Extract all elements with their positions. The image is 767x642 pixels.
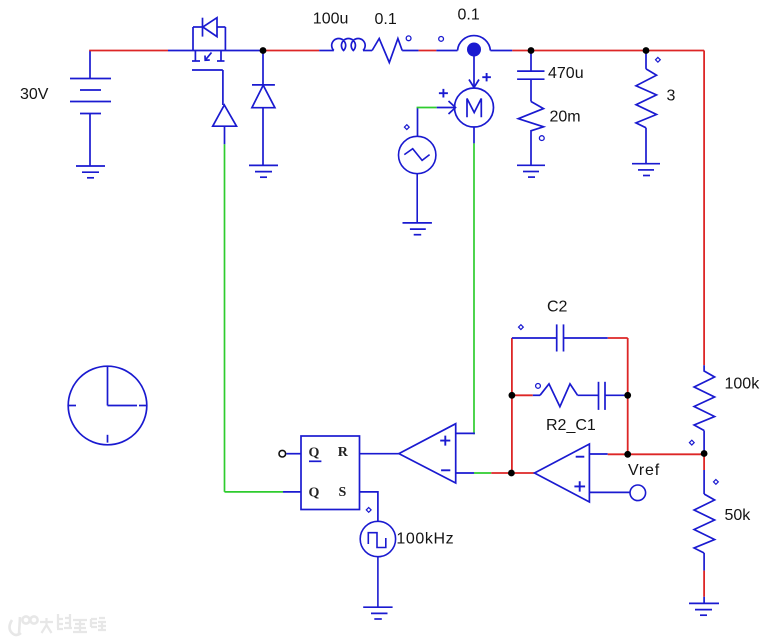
wire red switch node to inductor: [263, 50, 319, 52]
wire red ea output stub: [511, 472, 534, 474]
minus sign comparator: [441, 469, 450, 471]
marker circle RL: [406, 36, 411, 41]
svg-text:0.1: 0.1: [375, 11, 397, 28]
wire summer output blue stub: [473, 127, 475, 143]
plus sign left input summer: [439, 89, 448, 98]
wire red battery to mosfet: [89, 50, 168, 52]
svg-text:100u: 100u: [313, 11, 349, 28]
node ea minus feedback: [624, 451, 631, 458]
marker diamond source: [404, 125, 409, 130]
marker diamond 50k: [714, 480, 719, 485]
marker circle sensor: [439, 37, 444, 42]
svg-text:S: S: [339, 485, 347, 500]
wire green comp minus to ea out: [474, 472, 491, 474]
resistor 50k: [694, 470, 715, 571]
svg-text:Q: Q: [309, 486, 320, 501]
ground 100kHz: [363, 607, 392, 619]
svg-text:Vref: Vref: [628, 462, 660, 479]
Vref terminal: [630, 485, 646, 501]
node feedback left mid: [509, 392, 516, 399]
battery V1: [70, 51, 111, 167]
marker diamond clock: [366, 508, 371, 513]
resistor load 3: [636, 51, 657, 164]
resistor 100k: [694, 365, 715, 453]
wire sensor dot down to summer: [469, 56, 479, 88]
svg-text:100k: 100k: [725, 376, 761, 393]
wire red right vertical: [703, 51, 705, 366]
node switch junction: [260, 47, 267, 54]
plus sign top input summer: [482, 73, 491, 81]
gate driver triangle: [213, 105, 237, 144]
svg-text:R: R: [338, 445, 349, 460]
wire red to sensor: [419, 50, 437, 52]
watermark logo: [10, 616, 38, 635]
svg-text:50k: 50k: [725, 507, 752, 524]
diode D1 freewheeling: [252, 51, 275, 166]
terminal circle qbar: [279, 450, 286, 457]
wire green to flipflop Q: [225, 491, 284, 493]
wire red feedback right vertical: [627, 338, 629, 454]
triangle wave source: [399, 136, 436, 223]
wire after RL: [402, 50, 418, 52]
ground diode D1: [249, 165, 278, 177]
summer block M: [455, 88, 494, 127]
ground 50k: [689, 603, 719, 615]
wire blue 50k ground lead: [703, 597, 705, 604]
wire source to summer blue vertical: [417, 108, 419, 137]
capacitor C1 feedback: [599, 382, 628, 410]
wire red c2 right: [608, 337, 628, 339]
ground triangle source: [403, 223, 432, 235]
svg-text:3: 3: [667, 88, 676, 105]
wire blue q pin stub: [283, 491, 301, 493]
resistor 20m: [518, 102, 543, 166]
plus sign comparator: [440, 436, 450, 446]
flip flop SR: [301, 436, 360, 510]
resistor R2 feedback: [533, 384, 599, 407]
marker diamond R3: [656, 57, 661, 62]
svg-text:30V: 30V: [20, 86, 49, 103]
MOSFET Q1 with body diode: [192, 18, 225, 105]
wire qbar to terminal: [286, 453, 301, 455]
sensor dot: [467, 43, 481, 57]
clock symbol: [68, 366, 147, 445]
wire red sensor to cap node: [512, 50, 531, 52]
comparator: [399, 424, 475, 483]
svg-text:20m: 20m: [550, 109, 581, 126]
marker circle 20m: [539, 136, 544, 141]
square wave source 100kHz: [360, 521, 395, 607]
marker circle r2: [536, 384, 541, 389]
ground 20m: [517, 165, 545, 177]
wire S to clock source: [360, 492, 378, 521]
svg-text:C2: C2: [547, 299, 568, 316]
node divider tap: [701, 450, 708, 457]
capacitor C2 feedback top: [512, 324, 608, 351]
wire red tap down: [703, 454, 705, 471]
node cap junction: [528, 47, 535, 54]
resistor RL 0.1: [372, 39, 402, 63]
watermark text: [40, 614, 106, 633]
wire blue rail through mosfet: [168, 50, 263, 52]
capacitor C 470u: [517, 51, 544, 102]
wire red to ea output node: [491, 472, 511, 474]
wire green summer left input: [417, 107, 437, 109]
wire red r2c1 left: [512, 394, 533, 396]
wire green summer output to comparator: [473, 143, 475, 434]
marker diamond 100k: [689, 440, 694, 445]
minus sign ea: [576, 456, 585, 458]
svg-text:R2_C1: R2_C1: [546, 417, 596, 434]
marker diamond c2: [519, 325, 524, 330]
ground battery: [76, 166, 105, 178]
wire R to comparator: [360, 453, 399, 455]
node ea output: [508, 470, 515, 477]
inductor L1: [319, 38, 372, 50]
wire red load node to corner: [646, 50, 704, 52]
svg-text:Q: Q: [309, 446, 320, 461]
wire red cap node to load node: [531, 50, 646, 52]
wire red feedback left vertical: [511, 338, 513, 473]
svg-text:100kHz: 100kHz: [396, 531, 454, 548]
svg-text:470u: 470u: [548, 65, 584, 82]
node load junction: [643, 47, 650, 54]
ground R3: [632, 164, 660, 176]
error amplifier: [535, 444, 631, 502]
wire red ea minus to tap: [608, 453, 704, 455]
wire green gate down: [224, 144, 226, 492]
svg-text:0.1: 0.1: [458, 7, 480, 24]
current sensor 0.1: [458, 36, 513, 51]
wire red 50k to ground: [703, 571, 705, 597]
plus sign ea: [574, 481, 585, 491]
node feedback right mid: [624, 392, 631, 399]
wire blue summer left stub: [437, 101, 456, 114]
wire blue sensor lead: [436, 50, 457, 52]
